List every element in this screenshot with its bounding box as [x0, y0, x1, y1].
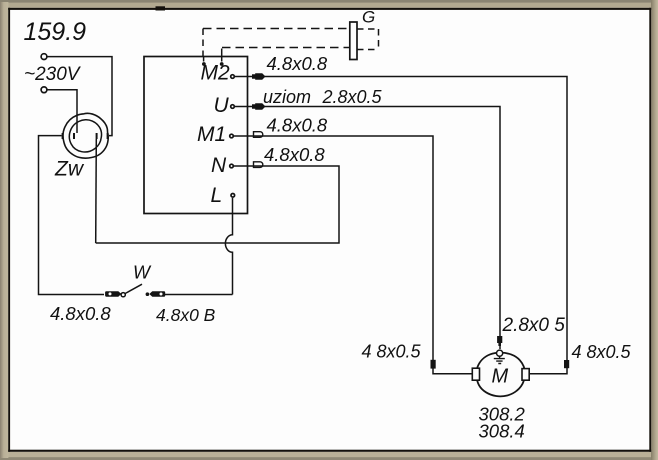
wire: switch to L drop	[165, 294, 233, 296]
plug pin inner-left	[73, 133, 75, 139]
motor right brush tab	[522, 369, 529, 381]
svg-text:M2: M2	[201, 62, 230, 85]
svg-text:4.8x0.8: 4.8x0.8	[264, 144, 325, 165]
motor M body	[476, 353, 525, 397]
motor left brush tab	[472, 368, 479, 380]
svg-text:L: L	[211, 184, 223, 207]
supply terminal (bottom)	[41, 87, 47, 93]
svg-text:4.8x0 B: 4.8x0 B	[156, 305, 216, 325]
dashed drop to M2 node (left)	[202, 29, 204, 57]
svg-text:~230V: ~230V	[24, 64, 82, 85]
svg-text:N: N	[211, 154, 227, 177]
suppressor G bar	[350, 22, 357, 60]
border line bottom	[8, 450, 651, 452]
svg-text:U: U	[214, 94, 230, 117]
wire M1 to motor left side	[234, 136, 473, 374]
svg-text:G: G	[362, 7, 375, 26]
suppressor G dashed body top	[357, 28, 379, 30]
plug pin outer-right	[107, 133, 109, 139]
svg-text:4 8x0.5: 4 8x0.5	[572, 342, 632, 362]
connector on motor right wire (filled)	[564, 360, 569, 368]
plug pin outer-left	[62, 133, 64, 139]
wire: N return rail, up to terminal N	[96, 166, 339, 243]
switch W pivot	[121, 293, 125, 297]
svg-text:W: W	[133, 263, 152, 283]
plug Zw outer circle	[63, 113, 108, 158]
motor ground symbol	[494, 356, 505, 364]
svg-text:uziom2.8x0.5: uziom2.8x0.5	[263, 87, 383, 107]
svg-text:4.8x0.8: 4.8x0.8	[50, 303, 111, 324]
wire M2 to motor right side	[235, 77, 568, 374]
terminal block	[144, 57, 248, 214]
dashed wire to suppressor (upper)	[203, 28, 350, 30]
svg-text:4.8x0.8: 4.8x0.8	[267, 115, 328, 136]
plug Zw inner circle	[69, 120, 101, 152]
svg-text:4.8x0.8: 4.8x0.8	[267, 53, 328, 74]
switch W left connector	[105, 291, 121, 297]
switch W blade	[125, 284, 142, 293]
drop to M2 node (right)	[221, 49, 223, 62]
plug pin inner-right	[96, 133, 98, 139]
svg-text:Zw: Zw	[54, 158, 85, 181]
terminal N node	[230, 164, 234, 168]
terminal M2 node	[231, 75, 235, 79]
border line left	[8, 8, 10, 452]
switch W right connector	[149, 291, 165, 297]
svg-text:308.4: 308.4	[479, 421, 525, 442]
svg-text:M: M	[492, 366, 509, 388]
connector on motor top wire (filled)	[497, 336, 502, 346]
scan artifact tick on top border	[156, 6, 166, 10]
node dot above M2 (right)	[220, 62, 224, 66]
border line top	[8, 8, 651, 10]
wire from top supply terminal	[47, 57, 112, 136]
switch W contact dot	[146, 292, 150, 296]
supply terminal (top)	[41, 54, 47, 60]
node dot above M2 (left)	[202, 62, 206, 66]
svg-text:M1: M1	[197, 123, 226, 146]
wire: Zw outer-left pin to left rail, down to switch	[39, 136, 105, 295]
wire from bottom supply terminal	[47, 90, 77, 133]
connector on motor left wire (filled)	[431, 360, 436, 369]
border line right	[649, 8, 651, 452]
wire U (uziom) to motor top	[235, 107, 501, 350]
connector on M1 wire (open)	[254, 132, 263, 138]
terminal M1 node	[230, 134, 234, 138]
connector on N wire (open)	[254, 162, 263, 168]
svg-text:159.9: 159.9	[24, 18, 87, 46]
svg-text:2.8x0 5: 2.8x0 5	[502, 315, 566, 336]
motor top ground terminal circle	[497, 350, 503, 356]
svg-text:4 8x0.5: 4 8x0.5	[362, 342, 422, 362]
connector on M2 wire (filled)	[252, 73, 266, 79]
suppressor G dashed body bottom	[357, 49, 379, 51]
wire: Zw inner-right pin down to return rail	[95, 139, 98, 243]
wire: L terminal down, hop over return rail, to switch	[225, 198, 232, 295]
terminal U node	[231, 105, 235, 109]
suppressor G dashed body right	[378, 29, 380, 50]
connector on U wire (filled)	[252, 103, 266, 109]
terminal L node	[231, 194, 235, 198]
dashed wire to suppressor (lower)	[222, 47, 350, 49]
